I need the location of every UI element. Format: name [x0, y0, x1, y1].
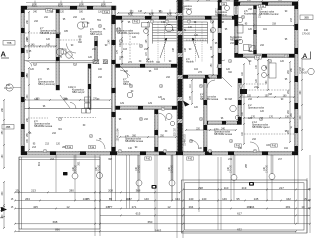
- label room 2.9: [146, 58, 155, 64]
- icon camera right: [249, 182, 254, 186]
- section marker A right: [302, 52, 311, 61]
- svg-text:140: 140: [304, 29, 309, 32]
- wall interior x89 left-mid: [88, 64, 91, 109]
- vdim right room: [288, 61, 291, 143]
- fixture kitchen b: [262, 73, 267, 78]
- wall interior y62 left (thin + pieces): [25, 60, 108, 67]
- label P+E j: [259, 5, 266, 9]
- dim top center: [176, 0, 239, 2]
- svg-text:140: 140: [144, 197, 149, 201]
- tag 27: [43, 149, 46, 153]
- tag 29: [163, 149, 166, 153]
- tag 28: [118, 149, 121, 153]
- svg-text:281: 281: [286, 205, 291, 209]
- svg-text:Spavaca soba: Spavaca soba: [248, 107, 264, 110]
- svg-text:NB2-ku.p.: NB2-ku.p.: [230, 39, 241, 42]
- label room 2.6up: [180, 2, 193, 10]
- ext line x129: [129, 155, 131, 209]
- tag 1: [165, 20, 168, 24]
- svg-text:NB1/NB1-(l-osnova): NB1/NB1-(l-osnova): [117, 32, 140, 35]
- wall interior x156 lower-left bath: [155, 110, 159, 152]
- label 3BB right: [300, 15, 313, 20]
- tag 19: [89, 134, 92, 138]
- tag 17: [199, 117, 202, 121]
- wall interior x236 lower: [235, 20, 239, 58]
- svg-text:gr: gr: [290, 126, 292, 129]
- tag 9: [228, 59, 231, 63]
- svg-text:170+20: 170+20: [299, 73, 307, 75]
- dim bottom row4: [100, 212, 310, 217]
- dim bottom row5: [14, 220, 311, 225]
- tag 2: [187, 20, 190, 24]
- dim bottom row1 left: [14, 189, 181, 194]
- arrow marker party wall: [183, 101, 190, 107]
- label room 2.7: [40, 27, 61, 35]
- svg-text:NB1 (l-osnova): NB1 (l-osnova): [38, 83, 55, 86]
- tag 14: [239, 84, 242, 88]
- label P+E h2: [235, 144, 242, 148]
- tag 21: [229, 139, 232, 143]
- svg-text:15/4M 18/2: 15/4M 18/2: [185, 134, 187, 146]
- dim left y137: [119, 135, 177, 138]
- svg-text:85: 85: [109, 197, 113, 201]
- column dim 137: [136, 164, 141, 172]
- svg-text:A: A: [1, 50, 7, 59]
- svg-text:170+20: 170+20: [172, 164, 174, 172]
- fixture wc lower-left: [166, 114, 172, 120]
- vdim right x244: [242, 63, 245, 145]
- fixture sink right: [238, 39, 243, 44]
- dim bottom row1 right: [182, 186, 311, 191]
- svg-text:P+E: P+E: [256, 58, 261, 60]
- fixture wm2 right: [250, 46, 255, 52]
- wall exterior top-left: [21, 6, 116, 10]
- door arc lower-left bath: [158, 113, 166, 121]
- tag 10: [268, 59, 271, 63]
- label gr: [290, 126, 292, 129]
- terrace inner line: [19, 159, 100, 161]
- fireplace block: [240, 89, 247, 94]
- tag 30: [208, 149, 211, 153]
- tag 31: [253, 149, 256, 153]
- svg-text:146: 146: [222, 197, 227, 201]
- fixture wc stair-left2: [165, 24, 173, 32]
- wall interior x240 right-lower: [238, 79, 242, 122]
- wall step x236: [234, 0, 238, 20]
- wall exterior right: [295, 6, 299, 152]
- door diag right: [222, 77, 232, 87]
- grid bubble right: [308, 68, 314, 74]
- label 7HB left: [3, 41, 15, 46]
- svg-text:125/41 1904: 125/41 1904: [118, 128, 120, 141]
- vdim left lower: [27, 67, 30, 151]
- label P+E c: [133, 20, 140, 24]
- dim right y118: [243, 116, 295, 119]
- door arc right: [217, 60, 225, 68]
- label P+E i2: [89, 145, 96, 149]
- svg-text:170+20: 170+20: [267, 164, 269, 172]
- wall interior y123 right-lower: [204, 121, 242, 125]
- extra bottom row numbers: [66, 186, 307, 209]
- svg-text:615: 615: [136, 212, 141, 216]
- svg-text:322 327: 322 327: [175, 127, 177, 136]
- svg-text:896: 896: [55, 228, 60, 232]
- fixture rects left-mid bath b: [85, 103, 91, 108]
- vdim room 2.7: [27, 11, 30, 59]
- svg-text:301: 301: [78, 161, 81, 166]
- wall interior x57 bath: [56, 10, 60, 91]
- column dim 74: [73, 164, 78, 172]
- label P+E a: [46, 9, 53, 13]
- dashed line room tl b: [25, 46, 55, 48]
- column dim 97: [96, 164, 101, 172]
- svg-text:271: 271: [132, 205, 137, 209]
- svg-text:294: 294: [250, 205, 255, 209]
- dim right y97: [239, 95, 295, 98]
- svg-text:NB2-soc.p.: NB2-soc.p.: [215, 14, 228, 17]
- tag 13: [199, 84, 202, 88]
- svg-text:632: 632: [237, 228, 242, 232]
- wall interior y77 right-hall: [183, 75, 222, 79]
- svg-text:170+20: 170+20: [99, 164, 101, 172]
- dim right y130: [185, 128, 237, 131]
- label room 2.8: [125, 135, 144, 143]
- dashed line room tl a: [25, 32, 55, 34]
- fixture column t2: [136, 180, 142, 186]
- label room 2.11: [214, 128, 233, 136]
- grid bubble left: [6, 84, 21, 91]
- vdim interior x148: [146, 21, 149, 61]
- fixture wc upper a: [225, 6, 230, 11]
- svg-text:12: 12: [167, 205, 171, 209]
- door arc lower-right bath: [207, 80, 215, 88]
- wall party x180: [177, 0, 183, 152]
- label room 2.5: [244, 10, 256, 16]
- fixture column t5: [269, 174, 275, 180]
- dim tl room y46: [24, 44, 57, 47]
- svg-text:1145: 1145: [109, 39, 111, 45]
- label P+E e: [255, 56, 262, 60]
- section marker A left: [1, 50, 10, 59]
- floor line y108.5 left: [25, 103, 112, 114]
- fixture kitchen counter: [269, 63, 276, 78]
- dim top right: [235, 0, 299, 2]
- label P+E h: [271, 144, 278, 148]
- door arc bottom: [96, 140, 105, 149]
- svg-text:301: 301: [38, 161, 41, 166]
- fixture wc right: [237, 17, 242, 22]
- svg-text:213: 213: [31, 189, 36, 193]
- svg-text:425: 425: [33, 205, 38, 209]
- dashed line left lower room: [56, 117, 96, 119]
- fixture wc upper b: [187, 10, 192, 15]
- fixture column t3: [169, 180, 175, 186]
- label room 2.4 kup: [72, 86, 85, 94]
- marker bottom-left: [1, 207, 7, 212]
- wall exterior left: [21, 10, 25, 152]
- svg-text:NB1/NB-(l-osnova): NB1/NB-(l-osnova): [40, 32, 61, 35]
- dim top band left: [26, 1, 112, 7]
- ext line x126: [126, 155, 128, 209]
- column dim 229: [228, 164, 233, 172]
- svg-text:140: 140: [189, 197, 194, 201]
- break marks left margin: [0, 207, 5, 219]
- stairs left unit: [153, 22, 177, 62]
- door diag left bath: [60, 95, 70, 108]
- fixture wc left: [56, 48, 63, 55]
- label room 2.6 kupaonica: [90, 28, 103, 36]
- scattered room dims: [29, 9, 288, 149]
- dim top row3: [117, 11, 177, 14]
- svg-text:277: 277: [108, 205, 113, 209]
- vdim left margin: [2, 99, 5, 169]
- fixture bidet left: [66, 52, 72, 58]
- fixture wc lower-right: [230, 105, 236, 111]
- dim top band mid verticals: [129, 10, 173, 16]
- svg-text:162: 162: [286, 197, 291, 201]
- label room 2.1: [259, 8, 279, 16]
- label room 2.2: [200, 93, 219, 101]
- svg-text:145: 145: [254, 197, 259, 201]
- tag 25: [208, 74, 211, 78]
- label room left-mid2: [123, 78, 131, 86]
- svg-text:NB7/NB3-Central: NB7/NB3-Central: [259, 13, 279, 16]
- wall exterior top-middle: [116, 16, 239, 20]
- wall step x112: [112, 6, 116, 20]
- fixture column t7: [97, 173, 103, 179]
- wall interior y108 left: [116, 106, 178, 110]
- wall exterior bottom: [21, 152, 298, 156]
- svg-text:P+E: P+E: [260, 6, 265, 8]
- fixture rects left-mid bath a: [85, 97, 91, 102]
- svg-text:NB2-vel.p2: NB2-vel.p2: [72, 91, 85, 94]
- fixture shower right: [237, 25, 243, 34]
- wall interior x255 right-bath: [254, 6, 257, 55]
- fixture column t4: [231, 175, 237, 181]
- vdim interior x258: [256, 59, 259, 89]
- label room left-mid: [38, 78, 55, 86]
- fixture sink lower-left: [170, 121, 174, 125]
- tag 15: [58, 117, 61, 121]
- fixture wc right-hall: [211, 28, 216, 33]
- door arc hall: [120, 70, 128, 78]
- column dim 265: [264, 164, 269, 172]
- svg-text:P+E: P+E: [90, 147, 95, 149]
- svg-text:650: 650: [148, 220, 153, 224]
- label P+E d: [220, 2, 227, 6]
- door arc bottom c: [250, 142, 259, 151]
- svg-text:298: 298: [198, 186, 203, 190]
- svg-text:NB3-vel.p1: NB3-vel.p1: [90, 33, 103, 36]
- door arc right room: [242, 57, 250, 65]
- svg-text:140: 140: [202, 197, 207, 201]
- svg-text:P+E: P+E: [146, 159, 151, 161]
- svg-text:15: 15: [15, 189, 19, 193]
- fixture hall left: [127, 92, 133, 98]
- icon small left: [63, 172, 68, 175]
- stairs right unit: [184, 22, 208, 62]
- terrace right outline: [182, 180, 308, 233]
- door diag hall: [120, 66, 130, 76]
- wall interior x220: [218, 0, 222, 75]
- svg-text:P+E: P+E: [188, 159, 193, 161]
- svg-text:15: 15: [303, 197, 307, 201]
- label room 2.9b: [186, 58, 195, 64]
- svg-text:170+20: 170+20: [302, 34, 310, 36]
- svg-text:134: 134: [175, 197, 180, 201]
- wall interior x205 lower-right bath: [204, 79, 208, 152]
- svg-text:368: 368: [136, 189, 141, 193]
- dashed right room low: [244, 133, 294, 135]
- tag 7: [139, 44, 142, 48]
- svg-text:263: 263: [25, 197, 30, 201]
- fixture kitchen a: [262, 66, 267, 71]
- tag 0: [150, 20, 153, 24]
- tag 20: [189, 139, 192, 143]
- fixture wc rects: [61, 49, 66, 54]
- tag 26: [284, 54, 287, 58]
- label room 2.1 left: [117, 27, 140, 35]
- svg-text:219: 219: [242, 186, 247, 190]
- fixture wc stair rect: [142, 23, 150, 28]
- vdim interior x122: [120, 21, 123, 65]
- svg-text:10: 10: [301, 205, 305, 209]
- fixture sink lower-right: [235, 115, 239, 119]
- svg-text:3BB: 3BB: [304, 17, 309, 20]
- vdim interior x268: [266, 59, 269, 91]
- svg-text:NB1-(l): NB1-(l): [123, 83, 131, 86]
- label P+E i: [66, 145, 73, 149]
- fixture wc stair-left: [144, 29, 149, 34]
- tag 23: [33, 62, 36, 66]
- svg-text:170+20: 170+20: [4, 88, 12, 90]
- wall interior y56 right: [238, 54, 295, 58]
- dim bottom row2: [14, 197, 311, 202]
- svg-text:217: 217: [279, 186, 284, 190]
- icon camera left: [152, 185, 157, 189]
- svg-text:Kupaonica: Kupaonica: [244, 13, 256, 16]
- tag 16: [139, 117, 142, 121]
- svg-text:170+20: 170+20: [139, 164, 141, 172]
- door arc bottom b: [190, 140, 199, 149]
- label room 2.3: [34, 120, 53, 128]
- door diag tl: [62, 48, 74, 59]
- dim right-bath y25: [237, 24, 295, 27]
- vdim interior x192: [190, 79, 193, 105]
- tag 24: [161, 107, 164, 111]
- svg-text:7HB: 7HB: [7, 42, 12, 45]
- svg-text:P+E: P+E: [67, 147, 72, 149]
- wall interior x96 bath: [95, 37, 98, 61]
- svg-text:Hodnik: Hodnik: [186, 61, 195, 64]
- wall interior x113 spine: [112, 20, 116, 152]
- terrace column stubs: [74, 155, 273, 201]
- fixture column t1: [72, 173, 78, 179]
- tag 6: [119, 39, 122, 43]
- dim bottom row3: [14, 205, 311, 210]
- svg-text:1463: 1463: [155, 229, 162, 233]
- svg-text:85: 85: [86, 197, 90, 201]
- svg-text:12: 12: [66, 205, 70, 209]
- svg-text:280: 280: [69, 189, 74, 193]
- tag 3: [210, 20, 213, 24]
- svg-text:P+E: P+E: [272, 146, 277, 148]
- label P+E b: [103, 10, 110, 14]
- svg-text:NB7/NB2 terasa: NB7/NB2 terasa: [214, 133, 233, 136]
- wall exterior top-right: [234, 2, 298, 6]
- vdim bottom-left margin: [2, 181, 5, 229]
- svg-text:170+20: 170+20: [231, 164, 233, 172]
- svg-text:617: 617: [237, 212, 242, 216]
- vdim right margin: [300, 57, 303, 151]
- label room 2.12: [252, 121, 270, 129]
- dim left y100: [24, 98, 111, 101]
- label room kup2: [230, 36, 242, 42]
- svg-text:NB1/NB2-terasa: NB1/NB2-terasa: [200, 98, 219, 101]
- tag 11: [129, 84, 132, 88]
- vdim interior x213: [211, 21, 214, 76]
- svg-text:110: 110: [224, 186, 229, 190]
- svg-text:P+E: P+E: [134, 22, 139, 24]
- svg-text:294: 294: [189, 205, 194, 209]
- label P+E g: [187, 157, 194, 161]
- tag 18: [259, 117, 262, 121]
- tag 8: [248, 44, 251, 48]
- label room 2.2b: [248, 104, 264, 110]
- fixture sink counter: [83, 22, 88, 27]
- svg-text:698: 698: [53, 220, 58, 224]
- tag 12: [159, 84, 162, 88]
- dashed line hall: [129, 30, 131, 60]
- tag 5: [98, 24, 101, 28]
- tag 4: [241, 15, 244, 18]
- fixture wm right: [244, 45, 250, 51]
- label room 2.8up: [215, 9, 228, 17]
- terrace left outline: [19, 157, 100, 229]
- label P+E f: [145, 157, 152, 161]
- wall interior y66 left-hall: [116, 64, 178, 68]
- dim bottom row6: [14, 228, 297, 233]
- column dim 170: [169, 164, 174, 172]
- svg-text:NB1/NB2-terasa: NB1/NB2-terasa: [34, 125, 53, 128]
- scattered dashed segments: [28, 40, 266, 118]
- svg-text:4BB: 4BB: [6, 126, 11, 129]
- tag 22: [73, 62, 76, 66]
- door arc left bath: [67, 44, 77, 54]
- svg-text:115: 115: [126, 197, 131, 201]
- svg-text:95: 95: [236, 197, 240, 201]
- svg-text:P+E: P+E: [221, 4, 226, 6]
- svg-text:208: 208: [108, 189, 113, 193]
- dashed line right room: [246, 89, 290, 91]
- svg-text:NB1/NB2 terasa: NB1/NB2 terasa: [125, 140, 144, 143]
- svg-text:NB7/NB2 sjever: NB7/NB2 sjever: [252, 126, 270, 129]
- extension lines bottom: [19, 155, 310, 238]
- svg-text:P+E: P+E: [104, 12, 109, 14]
- label 4BB left: [2, 125, 14, 130]
- fixture sink left: [77, 22, 84, 29]
